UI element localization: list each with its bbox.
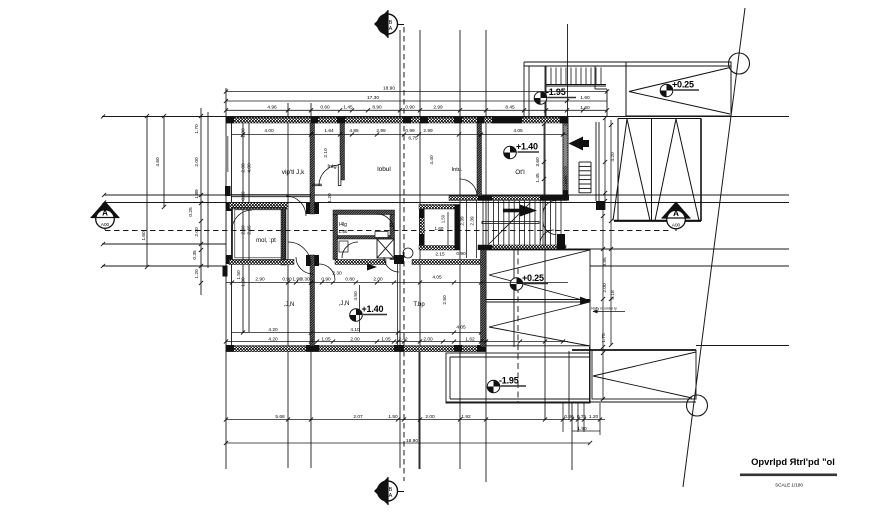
svg-text:LAMNIK: LAMNIK [564, 175, 568, 189]
svg-text:2.42: 2.42 [398, 336, 408, 342]
svg-text:Opvrlpd Яtrl'pd "ol: Opvrlpd Яtrl'pd "ol [751, 456, 835, 467]
svg-text:4.20: 4.20 [610, 152, 616, 162]
svg-text:5.18: 5.18 [610, 290, 616, 300]
svg-text:1.20: 1.20 [327, 193, 333, 203]
svg-text:0.30: 0.30 [300, 277, 310, 283]
title block [740, 456, 837, 488]
shaft with X [339, 232, 394, 259]
svg-text:2.39: 2.39 [470, 216, 476, 226]
svg-text:4.20: 4.20 [268, 327, 278, 333]
stair arrow [503, 205, 537, 217]
svg-text:4.05: 4.05 [432, 275, 442, 281]
section dashed lines [105, 27, 676, 481]
svg-text:4.00: 4.00 [247, 163, 253, 173]
svg-text:2.50: 2.50 [442, 295, 448, 305]
dimension lines [226, 92, 611, 444]
svg-text:2.00: 2.00 [350, 336, 360, 342]
svg-text:2.00: 2.00 [602, 283, 608, 293]
dimension texts rotated [141, 124, 616, 343]
upper annex entry stair [524, 62, 731, 117]
svg-text:4.40: 4.40 [429, 155, 435, 165]
double door arcs right of stair [543, 200, 556, 246]
svg-text:-1.95: -1.95 [499, 375, 519, 385]
entry arrow [569, 137, 590, 151]
lower terrace -1.95 [446, 353, 590, 403]
svg-text:0.60: 0.60 [320, 104, 330, 110]
svg-text:vip'tl J,k: vip'tl J,k [282, 169, 305, 176]
door arcs [232, 165, 554, 281]
svg-text:2.99: 2.99 [433, 104, 443, 110]
svg-text:4.60: 4.60 [155, 157, 161, 167]
svg-text:4.96: 4.96 [267, 104, 277, 110]
svg-text:1.70: 1.70 [194, 124, 200, 134]
svg-text:0.99: 0.99 [405, 128, 415, 134]
svg-text:Intu.: Intu. [452, 167, 463, 173]
exterior walls of main building [225, 117, 568, 352]
svg-text:3.95: 3.95 [602, 257, 608, 267]
svg-text:1.60: 1.60 [141, 231, 147, 241]
svg-text:18.90: 18.90 [406, 438, 418, 444]
svg-text:1.45: 1.45 [343, 104, 353, 110]
svg-text:1.89: 1.89 [194, 189, 200, 199]
svg-text:1.05: 1.05 [321, 336, 331, 342]
svg-text:6.75: 6.75 [408, 136, 418, 142]
upper right terrace with ramp [626, 62, 731, 116]
black wall columns [223, 117, 569, 352]
svg-text:1.00: 1.00 [241, 128, 247, 138]
mol room inner box [233, 208, 286, 261]
svg-text:2.00: 2.00 [423, 336, 433, 342]
svg-text:,J,N: ,J,N [339, 301, 350, 307]
svg-text:3.60: 3.60 [535, 157, 541, 167]
svg-text:2.00: 2.00 [425, 414, 435, 420]
svg-text:4.85: 4.85 [349, 128, 359, 134]
svg-text:1.50: 1.50 [339, 229, 348, 234]
interior walls [229, 123, 567, 347]
svg-text:2.15: 2.15 [435, 252, 445, 258]
svg-text:+1.40: +1.40 [516, 141, 538, 151]
svg-text:4.10: 4.10 [350, 327, 360, 333]
main stair [482, 201, 561, 246]
small circle marker [403, 248, 413, 258]
svg-text:1.75: 1.75 [601, 333, 607, 343]
svg-text:4.05: 4.05 [513, 128, 523, 134]
svg-text:2.00: 2.00 [194, 227, 200, 237]
svg-text:0.86: 0.86 [564, 414, 574, 420]
svg-text:1.50: 1.50 [236, 270, 242, 280]
corridor arrow [367, 264, 377, 271]
svg-text:1.50: 1.50 [441, 214, 446, 223]
svg-text:1.05: 1.05 [381, 336, 391, 342]
diagonal boundary line [683, 8, 750, 487]
svg-text:2.90: 2.90 [255, 277, 265, 283]
V-braced pergola right [613, 119, 701, 222]
svg-text:2.30: 2.30 [332, 271, 342, 277]
svg-text:2.10: 2.10 [323, 148, 329, 158]
long vertical grid lines [147, 24, 572, 482]
elevation markers [350, 79, 699, 393]
svg-text:1.20: 1.20 [194, 269, 200, 279]
svg-text:4.50: 4.50 [353, 291, 359, 301]
svg-text:1.45: 1.45 [535, 173, 541, 183]
svg-text:0.75: 0.75 [577, 414, 587, 420]
bottom right ramp [446, 347, 696, 403]
svg-text:2.00: 2.00 [241, 163, 247, 173]
svg-text:0.25: 0.25 [188, 207, 194, 217]
svg-text:lobul: lobul [377, 166, 391, 173]
svg-text:0.90: 0.90 [321, 277, 331, 283]
svg-text:0.35: 0.35 [192, 250, 198, 260]
svg-text:0.90: 0.90 [282, 277, 292, 283]
svg-text:1.90: 1.90 [577, 426, 587, 432]
svg-text:8.45: 8.45 [505, 104, 515, 110]
svg-text:8.90: 8.90 [372, 104, 382, 110]
WC block [419, 205, 460, 251]
svg-text:2.00: 2.00 [373, 277, 383, 283]
svg-text:2.07: 2.07 [353, 414, 363, 420]
svg-text:2.60: 2.60 [241, 225, 247, 235]
svg-text:Nglty rd under ly: Nglty rd under ly [591, 307, 617, 311]
svg-text:17.30: 17.30 [367, 95, 379, 101]
svg-text:1.92: 1.92 [461, 414, 471, 420]
dimension texts horizontal [255, 85, 598, 444]
svg-text:5.68: 5.68 [275, 414, 285, 420]
svg-text:R: R [389, 223, 393, 229]
svg-text:+0.25: +0.25 [672, 79, 694, 89]
svg-text:0.90: 0.90 [405, 104, 415, 110]
section markers [91, 201, 120, 228]
living south wall [231, 195, 311, 197]
svg-text:+1.40: +1.40 [362, 304, 384, 314]
svg-text:1.60: 1.60 [435, 226, 444, 231]
svg-text:1.64: 1.64 [324, 128, 334, 134]
svg-text:Intg: Intg [327, 164, 336, 170]
dimension ticks [101, 89, 613, 445]
svg-text:1.62: 1.62 [465, 336, 475, 342]
svg-text:2.99: 2.99 [376, 128, 386, 134]
svg-text:,J,N: ,J,N [284, 302, 295, 308]
svg-text:0.80: 0.80 [345, 277, 355, 283]
svg-text:1.60: 1.60 [580, 105, 590, 111]
long horizontal grid lines [102, 117, 789, 346]
svg-text:mol, :pt: mol, :pt [256, 238, 276, 244]
svg-text:T.bp: T.bp [413, 302, 425, 308]
svg-text:2.39: 2.39 [460, 216, 466, 226]
svg-text:2.00: 2.00 [194, 157, 200, 167]
svg-text:l4lg: l4lg [339, 222, 347, 228]
svg-text:Ot'l: Ot'l [515, 169, 524, 176]
svg-text:1.60: 1.60 [580, 95, 590, 101]
svg-text:0.90: 0.90 [456, 251, 466, 257]
svg-text:4.20: 4.20 [268, 336, 278, 342]
svg-text:0.99: 0.99 [241, 191, 247, 201]
svg-text:1.20: 1.20 [589, 414, 599, 420]
svg-text:SCALE 1/100: SCALE 1/100 [775, 483, 803, 488]
svg-text:4.05: 4.05 [456, 325, 466, 331]
entry porch [579, 122, 599, 201]
svg-text:1.50: 1.50 [388, 414, 398, 420]
bath block [333, 210, 395, 260]
svg-text:2.65: 2.65 [247, 225, 253, 235]
svg-text:18.90: 18.90 [383, 85, 395, 91]
svg-text:4.00: 4.00 [264, 128, 274, 134]
svg-text:2.99: 2.99 [423, 128, 433, 134]
lower right terrace zigzag (ramp down) [486, 249, 590, 403]
room labels [256, 164, 625, 313]
svg-text:+0.25: +0.25 [522, 273, 544, 283]
